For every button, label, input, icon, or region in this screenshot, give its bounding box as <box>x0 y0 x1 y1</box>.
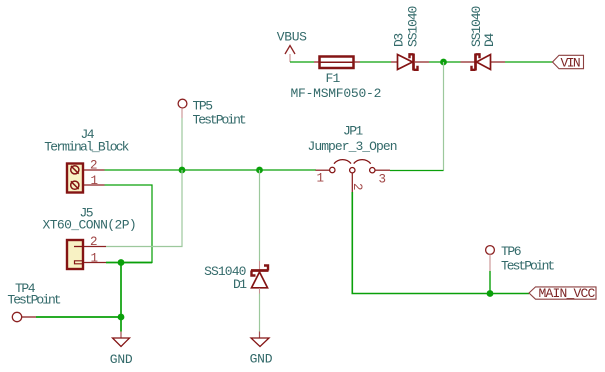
pin 3 of JP1 <box>370 168 375 173</box>
wire D1 down to GND <box>259 294 261 332</box>
svg-text:MF-MSMF050-2: MF-MSMF050-2 <box>291 86 382 101</box>
junction node under D3/D4 <box>440 59 447 66</box>
svg-text:VIN: VIN <box>561 56 580 71</box>
pin 2 of J4 <box>84 169 105 171</box>
svg-text:JP1: JP1 <box>343 124 363 139</box>
svg-text:2: 2 <box>90 159 97 173</box>
diode D1 SS1040 <box>204 261 268 294</box>
svg-text:3: 3 <box>379 173 386 187</box>
junction node at D1 branch <box>256 167 263 174</box>
svg-text:TP5: TP5 <box>193 99 213 114</box>
svg-text:XT60_CONN(2P): XT60_CONN(2P) <box>43 218 137 233</box>
testpoint TP4 <box>7 281 60 322</box>
diode D4 SS1040 <box>461 6 506 70</box>
svg-text:D1: D1 <box>233 277 247 292</box>
svg-text:TestPoint: TestPoint <box>501 259 554 274</box>
wire JP1 pin3 to vertical <box>390 170 444 172</box>
arc 1-2 <box>334 160 351 164</box>
svg-text:1: 1 <box>91 174 98 188</box>
pin 1 of JP1 <box>316 169 330 171</box>
pin 2 of J5 <box>84 246 106 248</box>
wire F1 to D3 <box>360 61 391 63</box>
power symbol VBUS <box>277 30 307 63</box>
svg-text:2: 2 <box>90 235 97 249</box>
wire D4 to VIN <box>505 61 553 63</box>
global label VIN <box>553 55 584 70</box>
svg-text:TestPoint: TestPoint <box>193 113 246 128</box>
wire bus down to J5 pin2 <box>106 170 182 247</box>
wire VBUS to F1 <box>290 61 314 63</box>
connector J5 <box>43 206 137 270</box>
svg-text:Jumper_3_Open: Jumper_3_Open <box>308 139 397 154</box>
svg-text:MAIN_VCC: MAIN_VCC <box>539 286 596 301</box>
wire junction down to GND <box>120 317 122 332</box>
svg-text:1: 1 <box>317 172 324 186</box>
svg-text:2: 2 <box>350 183 364 190</box>
wire junction to D4 <box>444 61 461 63</box>
wire bus down to D1 <box>259 170 261 261</box>
svg-text:D4: D4 <box>482 33 497 47</box>
pin 1 of J4 <box>84 184 105 186</box>
pin 1 of J5 <box>84 262 106 264</box>
wire J4 pin1 route <box>105 185 153 263</box>
ground GND (under D1) <box>250 332 273 367</box>
wire JP1 pin2 down to MAIN_VCC <box>352 192 529 294</box>
ground GND (left) <box>110 332 133 368</box>
junction node at TP5 drop <box>179 167 186 174</box>
wire TP4 to junction <box>36 316 121 318</box>
wire down to TP4 junction <box>120 263 122 318</box>
junction node TP4 <box>118 314 125 321</box>
jumper JP1 <box>308 124 397 193</box>
svg-text:Terminal_Block: Terminal_Block <box>44 140 129 155</box>
wire bus J4 pin2 to JP1 <box>105 169 317 171</box>
testpoint TP5 <box>178 99 246 128</box>
svg-text:TestPoint: TestPoint <box>7 293 60 308</box>
junction node TP6/MAIN_VCC <box>487 290 494 297</box>
fuse F1 <box>291 57 382 102</box>
arc 2-3 <box>354 160 371 164</box>
global label MAIN_VCC <box>529 286 596 301</box>
svg-text:1: 1 <box>91 252 98 266</box>
wire J5 pin1 to corner <box>106 262 152 264</box>
svg-text:GND: GND <box>110 352 133 367</box>
svg-text:F1: F1 <box>326 71 341 86</box>
svg-text:TP6: TP6 <box>501 244 521 259</box>
pin 2 stub down <box>351 173 353 192</box>
wire TP5 down to bus <box>181 118 183 170</box>
svg-text:D3: D3 <box>392 34 407 47</box>
testpoint TP6 <box>486 244 555 274</box>
wire junction down to JP1 pin3 <box>443 62 445 171</box>
junction node J5 pin1 <box>118 259 125 266</box>
wire D3 to junction <box>429 61 444 63</box>
svg-text:GND: GND <box>250 352 273 367</box>
wire TP6 down to junction <box>489 271 491 294</box>
svg-text:VBUS: VBUS <box>277 30 307 45</box>
pin 2 circle <box>350 168 355 173</box>
diode D3 SS1040 <box>391 6 429 70</box>
connector J4 <box>44 127 129 193</box>
svg-text:SS1040: SS1040 <box>406 6 421 47</box>
